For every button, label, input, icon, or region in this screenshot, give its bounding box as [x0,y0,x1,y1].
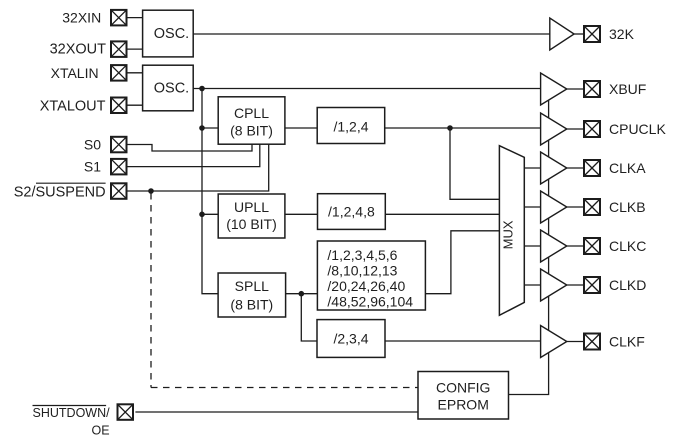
svg-text:CLKA: CLKA [609,160,646,176]
svg-text:32XIN: 32XIN [62,10,101,26]
svg-text:/48,52,96,104: /48,52,96,104 [327,294,413,310]
svg-text:/20,24,26,40: /20,24,26,40 [327,278,405,294]
svg-text:CLKF: CLKF [609,333,645,349]
svg-text:XBUF: XBUF [609,81,646,97]
svg-text:S2/SUSPEND: S2/SUSPEND [14,184,106,200]
svg-text:OSC.: OSC. [154,81,189,97]
svg-text:CPUCLK: CPUCLK [609,121,666,137]
svg-text:EPROM: EPROM [438,396,489,412]
svg-text:32XOUT: 32XOUT [50,42,107,58]
svg-text:SHUTDOWN/: SHUTDOWN/ [33,406,111,420]
svg-text:(8 BIT): (8 BIT) [230,122,273,138]
svg-text:XTALIN: XTALIN [51,65,99,81]
svg-text:CLKD: CLKD [609,277,646,293]
svg-text:CONFIG: CONFIG [436,379,490,395]
svg-text:/8,10,12,13: /8,10,12,13 [327,263,397,279]
svg-text:S1: S1 [84,159,101,175]
svg-text:CPLL: CPLL [234,105,269,121]
svg-text:S0: S0 [84,137,101,153]
svg-text:CLKC: CLKC [609,238,646,254]
svg-text:32K: 32K [609,26,635,42]
svg-text:CLKB: CLKB [609,199,646,215]
svg-text:/1,2,3,4,5,6: /1,2,3,4,5,6 [327,247,397,263]
svg-text:(10 BIT): (10 BIT) [226,216,277,232]
svg-text:MUX: MUX [500,220,515,249]
svg-text:OSC.: OSC. [154,26,189,42]
svg-text:/1,2,4: /1,2,4 [333,118,368,134]
svg-text:/2,3,4: /2,3,4 [333,330,368,346]
svg-text:/1,2,4,8: /1,2,4,8 [328,203,375,219]
svg-text:UPLL: UPLL [234,199,269,215]
svg-text:XTALOUT: XTALOUT [40,98,106,114]
svg-text:SPLL: SPLL [235,278,269,294]
svg-text:(8 BIT): (8 BIT) [230,296,273,312]
svg-text:OE: OE [92,424,110,438]
